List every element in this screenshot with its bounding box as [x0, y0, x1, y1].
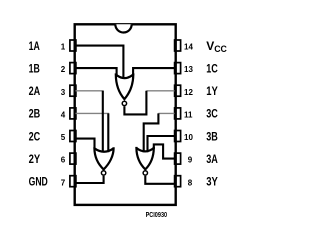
svg-text:1: 1: [61, 43, 66, 52]
svg-text:2Y: 2Y: [29, 152, 41, 166]
svg-text:PCI0930: PCI0930: [146, 212, 168, 219]
svg-text:6: 6: [61, 156, 66, 165]
svg-text:GND: GND: [29, 175, 48, 189]
svg-text:14: 14: [184, 43, 193, 52]
svg-text:13: 13: [184, 65, 193, 74]
svg-text:7: 7: [61, 178, 66, 187]
svg-text:12: 12: [184, 88, 193, 97]
svg-text:1B: 1B: [29, 61, 40, 75]
svg-text:8: 8: [188, 178, 193, 187]
svg-text:2A: 2A: [29, 84, 41, 98]
svg-text:1Y: 1Y: [206, 84, 218, 98]
svg-text:10: 10: [184, 133, 193, 142]
svg-text:1A: 1A: [29, 39, 40, 53]
svg-text:1C: 1C: [206, 61, 218, 75]
svg-text:3A: 3A: [206, 152, 218, 166]
svg-text:VCC: VCC: [206, 39, 227, 54]
svg-text:2: 2: [61, 65, 66, 74]
svg-text:3Y: 3Y: [206, 175, 218, 189]
svg-text:3C: 3C: [206, 107, 218, 121]
svg-text:4: 4: [61, 111, 66, 120]
svg-text:9: 9: [188, 156, 193, 165]
svg-text:2B: 2B: [29, 107, 41, 121]
svg-text:5: 5: [61, 133, 66, 142]
svg-text:2C: 2C: [29, 129, 41, 143]
svg-text:3: 3: [61, 88, 66, 97]
svg-text:3B: 3B: [206, 129, 218, 143]
svg-text:11: 11: [184, 111, 193, 120]
